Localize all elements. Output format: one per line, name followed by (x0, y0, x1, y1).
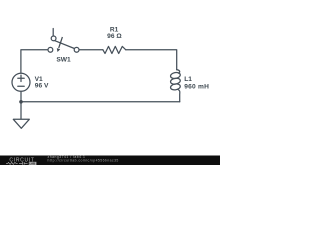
svg-text:96 Ω: 96 Ω (107, 33, 122, 40)
labels (35, 27, 210, 91)
wire junction to ground (20, 102, 22, 120)
svg-text:LAB: LAB (30, 161, 36, 165)
wire resistor to inductor top corner (126, 50, 177, 70)
ground (13, 119, 29, 128)
wire switch to resistor (79, 49, 103, 51)
wire top-left from V1 up and right to switch (21, 50, 48, 74)
wire V1 bottom to junction (20, 91, 22, 102)
wire bottom return (21, 101, 180, 103)
voltage source V1 (12, 73, 30, 91)
svg-text:SW1: SW1 (56, 56, 71, 63)
switch SW1 stub (top throw) (52, 29, 54, 37)
inductor L1 coil (177, 70, 180, 74)
switch SW1 lever (54, 40, 75, 48)
svg-text:96 V: 96 V (35, 83, 49, 90)
svg-text:http://circuitlab.com/c/xp4556: http://circuitlab.com/c/xp4556bnac35 (48, 159, 119, 163)
watermark logo LAB box (29, 162, 37, 165)
resistor R1 (103, 46, 126, 53)
junction node (19, 100, 23, 104)
watermark logo symbols (6, 162, 28, 165)
switch SW1 toggle arrow (59, 37, 63, 48)
svg-text:960 mH: 960 mH (184, 83, 209, 90)
switch SW1 terminals (48, 47, 53, 52)
svg-text:L1: L1 (184, 76, 192, 83)
watermark bar (0, 156, 220, 166)
